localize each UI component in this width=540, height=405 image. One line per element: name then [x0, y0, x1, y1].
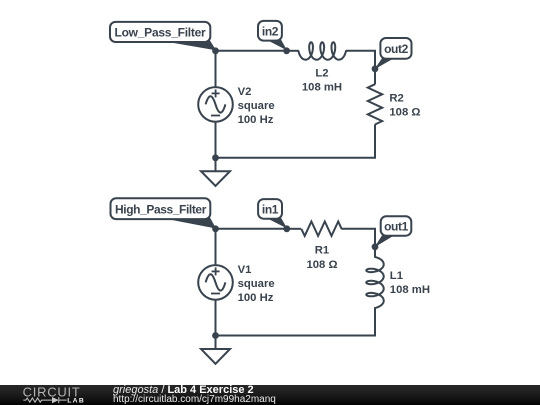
svg-text:square: square [238, 278, 275, 290]
svg-text:L1: L1 [390, 270, 403, 282]
net flag out2 [374, 38, 411, 69]
wire: in2 to L2 left terminal [287, 50, 299, 52]
logo schematic squiggle: resistor + diode [23, 397, 66, 403]
voltage source V2 [198, 87, 233, 122]
node A junction dot [212, 47, 219, 54]
bottom rail junction dot (bottom circuit) [212, 332, 219, 339]
url line [113, 394, 276, 405]
net flag in1 [258, 199, 287, 228]
ground symbol (bottom circuit) [201, 349, 230, 364]
node out2 dot [372, 65, 379, 72]
wire: L1 bottom to bottom rail to ground junction (bottom circuit) [216, 308, 376, 336]
net flag High_Pass_Filter [111, 198, 217, 228]
footer bar [0, 385, 540, 405]
wire: L2 right terminal to top-right corner down to out2 [346, 51, 375, 69]
net flag in2 [258, 21, 287, 51]
bottom rail junction dot (top circuit) [212, 154, 219, 161]
CircuitLab logo [0, 385, 110, 405]
resistor R2 zigzag [368, 84, 382, 124]
svg-text:L2: L2 [315, 67, 328, 79]
wire: ground stub (top circuit) [215, 158, 217, 171]
svg-text:100 Hz: 100 Hz [238, 114, 274, 126]
svg-text:out1: out1 [384, 220, 408, 234]
voltage source V1 [198, 265, 233, 300]
wire: node A2 to in1 (bottom circuit rail) [216, 228, 287, 230]
wire: V1 bottom terminal to bottom rail [215, 300, 217, 336]
node out1 dot [372, 243, 379, 250]
wire: out1 node to L1 top [374, 247, 376, 257]
ground symbol (top circuit) [201, 171, 230, 186]
node in2 dot [283, 47, 290, 54]
svg-text:High_Pass_Filter: High_Pass_Filter [115, 202, 207, 216]
svg-text:Low_Pass_Filter: Low_Pass_Filter [115, 26, 207, 40]
svg-text:square: square [238, 100, 275, 112]
svg-text:108 mH: 108 mH [302, 82, 342, 94]
net flag Low_Pass_Filter [110, 22, 216, 50]
svg-text:108 Ω: 108 Ω [389, 107, 420, 119]
wire: node A down to V2 top terminal [215, 51, 217, 87]
wire: V2 bottom terminal to bottom rail [215, 122, 217, 158]
net flag out1 [374, 216, 411, 247]
wire: in1 to R1 left terminal [287, 228, 301, 230]
svg-text:108 mH: 108 mH [390, 284, 430, 296]
inductor L1 coil [366, 257, 383, 308]
svg-text:R1: R1 [315, 245, 329, 257]
svg-text:in1: in1 [262, 202, 279, 216]
wire: node A to in2 (top rail) [216, 50, 287, 52]
wire: R2 bottom to bottom rail to ground junction [216, 124, 376, 157]
svg-text:V2: V2 [238, 86, 252, 98]
wire: node A2 down to V1 top terminal [215, 229, 217, 265]
svg-text:LAB: LAB [67, 397, 85, 404]
svg-text:out2: out2 [384, 42, 408, 56]
wire: ground stub (bottom circuit) [215, 336, 217, 350]
inductor L2 coil [298, 42, 346, 60]
svg-text:in2: in2 [262, 24, 279, 38]
svg-text:V1: V1 [238, 264, 252, 276]
wire: R1 right to corner down to out1 [341, 229, 375, 247]
node in1 dot [283, 225, 290, 232]
node A2 junction dot [212, 225, 219, 232]
svg-text:R2: R2 [389, 93, 403, 105]
resistor R1 zigzag [301, 222, 341, 236]
svg-text:100 Hz: 100 Hz [238, 292, 274, 304]
svg-text:108 Ω: 108 Ω [306, 259, 337, 271]
credit line: griegosta / Lab 4 Exercise 2 [113, 385, 254, 395]
wire: out2 node to R2 top [374, 69, 376, 85]
